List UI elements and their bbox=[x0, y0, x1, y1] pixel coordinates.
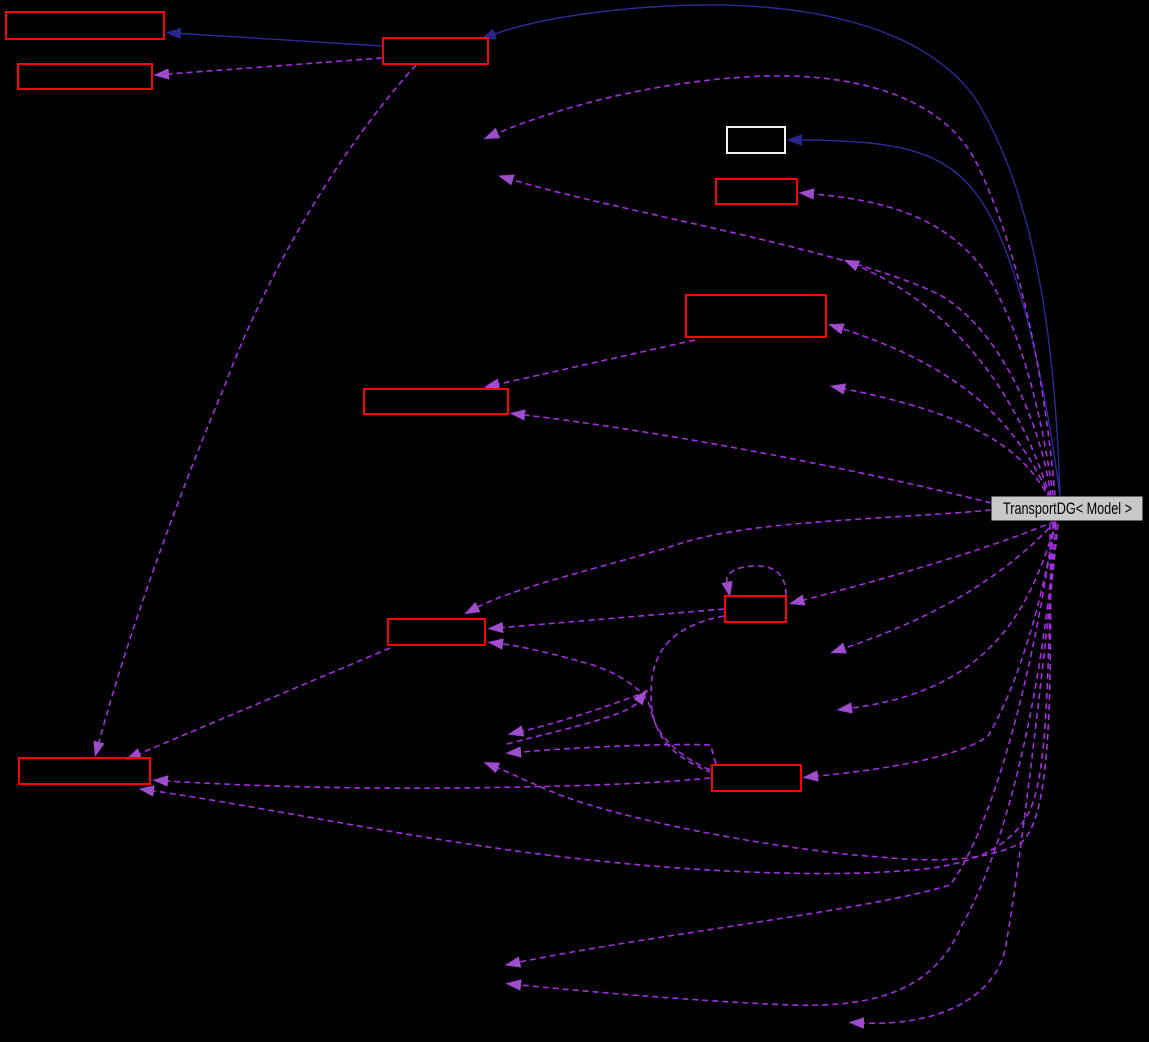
wire: dashed B11 to tip(505,983) bbox=[521, 524, 1056, 1005]
wire: dashed edge node3 to node2 bbox=[169, 58, 382, 74]
node 10 small red box with self-loop bbox=[725, 596, 786, 622]
wire: dashed T5 to node6 right bbox=[843, 329, 1050, 498]
node 6 red box two-line bbox=[686, 295, 826, 337]
wire: dashed L1 to node7 right bbox=[525, 415, 991, 503]
wire: blue solid arc TransportDG to white node4 bbox=[802, 140, 1060, 496]
wire: dashed self-loop on node10 bbox=[727, 566, 786, 595]
node 7 red box bbox=[364, 389, 508, 414]
wire: dashed B12 to tip(848,1021) bbox=[864, 524, 1058, 1023]
wire: dashed edge node10 to node9 bbox=[503, 609, 724, 628]
node 8 gray label box TransportDG< Model > bbox=[991, 496, 1143, 521]
wire: dashed B9 to node12 bottom corner bbox=[154, 523, 1053, 874]
wire: dashed T2 to node5 right bbox=[814, 194, 1053, 496]
node 4 white box bbox=[727, 127, 785, 153]
wire: dashed L3 to node9 right-lower bbox=[503, 644, 710, 770]
wire: dashed B6 to tip(505,753) bbox=[521, 745, 716, 764]
svg-text:TransportDG< Model >: TransportDG< Model > bbox=[1003, 499, 1132, 518]
wire: dashed edge node9 to node12 top-right bbox=[140, 648, 390, 754]
wire: dashed B8 to node11 right bbox=[818, 522, 1055, 776]
wire: dashed B1 to node10 right bbox=[804, 521, 1055, 600]
wire: dashed long curve node3 to node12 top bbox=[99, 65, 416, 742]
wire: dashed B7 to tip(484,764) bbox=[498, 524, 1051, 860]
wire: blue solid edge node3 to node1 bbox=[181, 34, 382, 47]
wire: dashed B2 to tip(830,651) bbox=[845, 521, 1056, 648]
node 3 top middle red box bbox=[383, 38, 488, 64]
wire: dashed edge P to tip(508,735) bbox=[523, 691, 648, 731]
wire: dashed T3 to tip(498,176) bbox=[513, 180, 1051, 496]
node 11 red box bbox=[712, 765, 801, 791]
wire: dashed edge Q up-right to tip(648,694) bbox=[507, 702, 638, 744]
wire: dashed T4 to tip(843,262) bbox=[858, 266, 1050, 497]
node 2 red box bbox=[18, 64, 152, 89]
wire: dashed B3 to tip(838,710) bbox=[852, 522, 1056, 708]
node 12 bottom-left red box bbox=[19, 758, 150, 784]
wire: dashed C-curve node10 to node11 bbox=[651, 616, 724, 772]
node 5 red box bbox=[716, 179, 797, 204]
wire: dashed edge node11 to node12 right bbox=[168, 778, 710, 788]
node 9 red box bbox=[388, 619, 485, 645]
wire: blue solid big arc TransportDG to node3 bbox=[495, 5, 1060, 496]
wire: dashed edge node6 to node7 top-right bbox=[499, 340, 695, 384]
node 1 top-left red box bbox=[6, 12, 164, 39]
wire: dashed L2 to node9 top-right bbox=[478, 510, 991, 607]
wire: dashed B10 to tip(505,965) bbox=[520, 523, 1054, 962]
wire: dashed T6 to tip(830,386) bbox=[845, 389, 1050, 500]
wire: dashed T1 big top curve to tip(484,137) bbox=[498, 76, 1055, 496]
